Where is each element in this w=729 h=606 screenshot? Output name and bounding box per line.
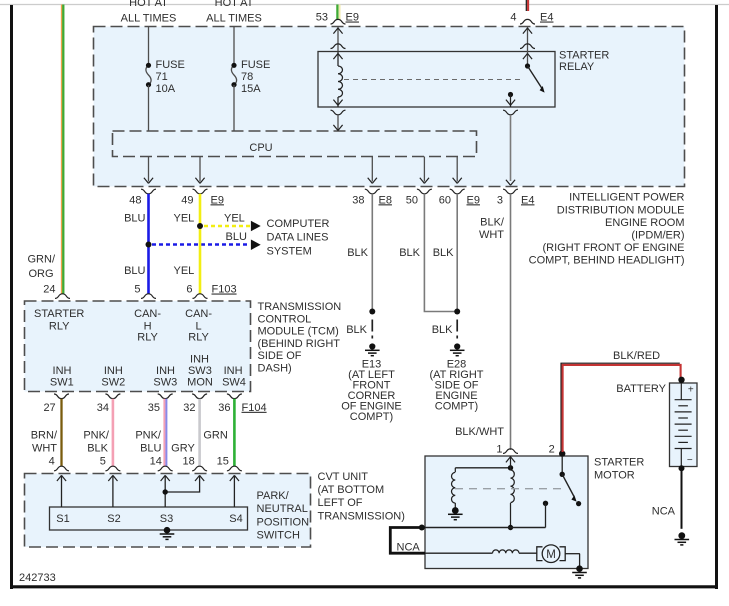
svg-text:INTELLIGENT POWER: INTELLIGENT POWER [569, 192, 684, 204]
svg-text:S2: S2 [107, 513, 120, 525]
svg-text:POSITION: POSITION [257, 516, 310, 528]
svg-text:SIDE OF: SIDE OF [258, 350, 302, 362]
svg-text:(RIGHT FRONT OF ENGINE: (RIGHT FRONT OF ENGINE [543, 242, 685, 254]
svg-text:WHT: WHT [479, 229, 504, 241]
svg-text:BLK: BLK [346, 324, 367, 336]
svg-text:GRY: GRY [171, 443, 195, 455]
svg-text:15: 15 [217, 456, 229, 468]
svg-text:YEL: YEL [174, 213, 195, 225]
svg-text:71: 71 [156, 71, 168, 83]
svg-text:RLY: RLY [49, 321, 70, 333]
svg-text:COMPT): COMPT) [350, 411, 393, 423]
svg-text:E9: E9 [211, 194, 224, 206]
svg-text:MOTOR: MOTOR [594, 470, 635, 482]
svg-text:E9: E9 [346, 12, 359, 24]
svg-text:PNK/: PNK/ [135, 429, 162, 441]
svg-text:WHT: WHT [32, 443, 57, 455]
svg-text:35: 35 [148, 402, 160, 414]
svg-text:48: 48 [129, 194, 141, 206]
svg-text:BLU: BLU [124, 213, 145, 225]
svg-text:TRANSMISSION): TRANSMISSION) [318, 510, 405, 522]
svg-text:INH: INH [104, 365, 123, 377]
svg-text:E4: E4 [521, 194, 534, 206]
svg-text:SWITCH: SWITCH [257, 530, 300, 542]
svg-text:INH: INH [53, 365, 72, 377]
svg-text:50: 50 [406, 194, 418, 206]
svg-text:NEUTRAL: NEUTRAL [257, 503, 308, 515]
svg-text:27: 27 [43, 402, 55, 414]
svg-text:DATA LINES: DATA LINES [267, 232, 329, 244]
svg-text:SW2: SW2 [101, 377, 125, 389]
svg-text:E8: E8 [379, 194, 392, 206]
svg-text:1: 1 [496, 444, 502, 456]
svg-text:(IPDM/ER): (IPDM/ER) [631, 230, 684, 242]
svg-text:36: 36 [218, 402, 230, 414]
svg-text:DASH): DASH) [258, 363, 292, 375]
svg-text:TRANSMISSION: TRANSMISSION [258, 301, 342, 313]
svg-text:60: 60 [439, 194, 451, 206]
svg-text:BLU: BLU [124, 265, 145, 277]
svg-text:SYSTEM: SYSTEM [267, 245, 312, 257]
svg-text:CVT UNIT: CVT UNIT [318, 471, 369, 483]
svg-text:+: + [688, 385, 694, 396]
svg-text:BLK: BLK [399, 247, 420, 259]
svg-text:15A: 15A [241, 83, 261, 95]
svg-text:BLK: BLK [433, 247, 454, 259]
svg-text:4: 4 [510, 12, 516, 24]
svg-text:−: − [687, 455, 693, 466]
svg-text:32: 32 [183, 402, 195, 414]
svg-text:34: 34 [97, 402, 109, 414]
svg-text:2: 2 [549, 444, 555, 456]
svg-text:COMPT): COMPT) [435, 401, 478, 413]
svg-text:4: 4 [49, 456, 55, 468]
svg-text:CAN-: CAN- [134, 308, 161, 320]
svg-text:GRN: GRN [203, 429, 228, 441]
svg-text:MODULE (TCM): MODULE (TCM) [258, 326, 339, 338]
svg-text:BLK/: BLK/ [480, 217, 505, 229]
svg-text:GRN/: GRN/ [28, 254, 56, 266]
svg-text:SW3: SW3 [188, 365, 212, 377]
svg-text:INH: INH [190, 354, 209, 366]
svg-text:14: 14 [150, 456, 162, 468]
svg-text:RLY: RLY [188, 332, 209, 344]
svg-text:ORG: ORG [28, 268, 53, 280]
svg-text:RELAY: RELAY [559, 61, 595, 73]
svg-text:STARTER: STARTER [559, 50, 609, 62]
svg-text:COMPT, BEHIND HEADLIGHT): COMPT, BEHIND HEADLIGHT) [529, 255, 685, 267]
svg-text:ALL TIMES: ALL TIMES [206, 13, 262, 25]
svg-text:FUSE: FUSE [156, 59, 185, 71]
svg-text:BLK: BLK [347, 247, 368, 259]
svg-text:ALL TIMES: ALL TIMES [121, 13, 177, 25]
svg-text:S3: S3 [160, 513, 173, 525]
svg-text:SW4: SW4 [222, 377, 246, 389]
svg-text:5: 5 [100, 456, 106, 468]
svg-text:10A: 10A [156, 83, 176, 95]
svg-text:NCA: NCA [652, 506, 676, 518]
svg-text:BLU: BLU [226, 231, 247, 243]
svg-text:M: M [546, 549, 556, 561]
svg-text:3: 3 [497, 194, 503, 206]
svg-text:SW3: SW3 [153, 377, 177, 389]
svg-text:BLK/WHT: BLK/WHT [455, 426, 504, 438]
svg-text:(AT BOTTOM: (AT BOTTOM [318, 484, 385, 496]
svg-text:E9: E9 [467, 194, 480, 206]
svg-text:HOT AT: HOT AT [129, 0, 168, 9]
svg-text:INH: INH [156, 365, 175, 377]
svg-text:S1: S1 [56, 513, 69, 525]
svg-text:YEL: YEL [174, 265, 195, 277]
svg-text:E4: E4 [540, 12, 553, 24]
svg-text:53: 53 [316, 12, 328, 24]
svg-text:S4: S4 [229, 513, 242, 525]
svg-text:49: 49 [181, 194, 193, 206]
svg-text:BLK: BLK [432, 324, 453, 336]
svg-text:DISTRIBUTION MODULE: DISTRIBUTION MODULE [557, 204, 685, 216]
svg-text:RLY: RLY [137, 332, 158, 344]
svg-text:BATTERY: BATTERY [616, 383, 666, 395]
svg-text:BLK: BLK [87, 443, 108, 455]
svg-text:PARK/: PARK/ [257, 490, 290, 502]
svg-text:BLU: BLU [140, 443, 161, 455]
svg-text:BLK/RED: BLK/RED [613, 350, 660, 362]
svg-text:18: 18 [183, 456, 195, 468]
svg-text:FUSE: FUSE [241, 59, 270, 71]
svg-text:YEL: YEL [224, 213, 245, 225]
svg-text:SW1: SW1 [50, 377, 74, 389]
svg-text:(BEHIND RIGHT: (BEHIND RIGHT [258, 338, 341, 350]
svg-text:STARTER: STARTER [594, 457, 644, 469]
svg-text:5: 5 [134, 284, 140, 296]
svg-text:HOT AT: HOT AT [215, 0, 254, 9]
svg-text:ENGINE ROOM: ENGINE ROOM [605, 217, 684, 229]
svg-text:78: 78 [241, 71, 253, 83]
svg-text:CONTROL: CONTROL [258, 313, 312, 325]
svg-text:38: 38 [352, 194, 364, 206]
svg-text:MON: MON [187, 377, 213, 389]
svg-text:F104: F104 [242, 402, 267, 414]
svg-text:NCA: NCA [397, 542, 421, 554]
svg-text:CPU: CPU [249, 142, 272, 154]
svg-text:24: 24 [43, 284, 55, 296]
svg-text:COMPUTER: COMPUTER [267, 218, 330, 230]
svg-text:BRN/: BRN/ [31, 429, 58, 441]
svg-text:PNK/: PNK/ [83, 429, 110, 441]
svg-text:INH: INH [224, 365, 243, 377]
svg-text:F103: F103 [212, 284, 237, 296]
svg-text:6: 6 [186, 284, 192, 296]
svg-text:LEFT OF: LEFT OF [318, 497, 363, 509]
svg-text:STARTER: STARTER [34, 308, 84, 320]
svg-text:CAN-: CAN- [185, 308, 212, 320]
svg-text:242733: 242733 [19, 572, 56, 584]
